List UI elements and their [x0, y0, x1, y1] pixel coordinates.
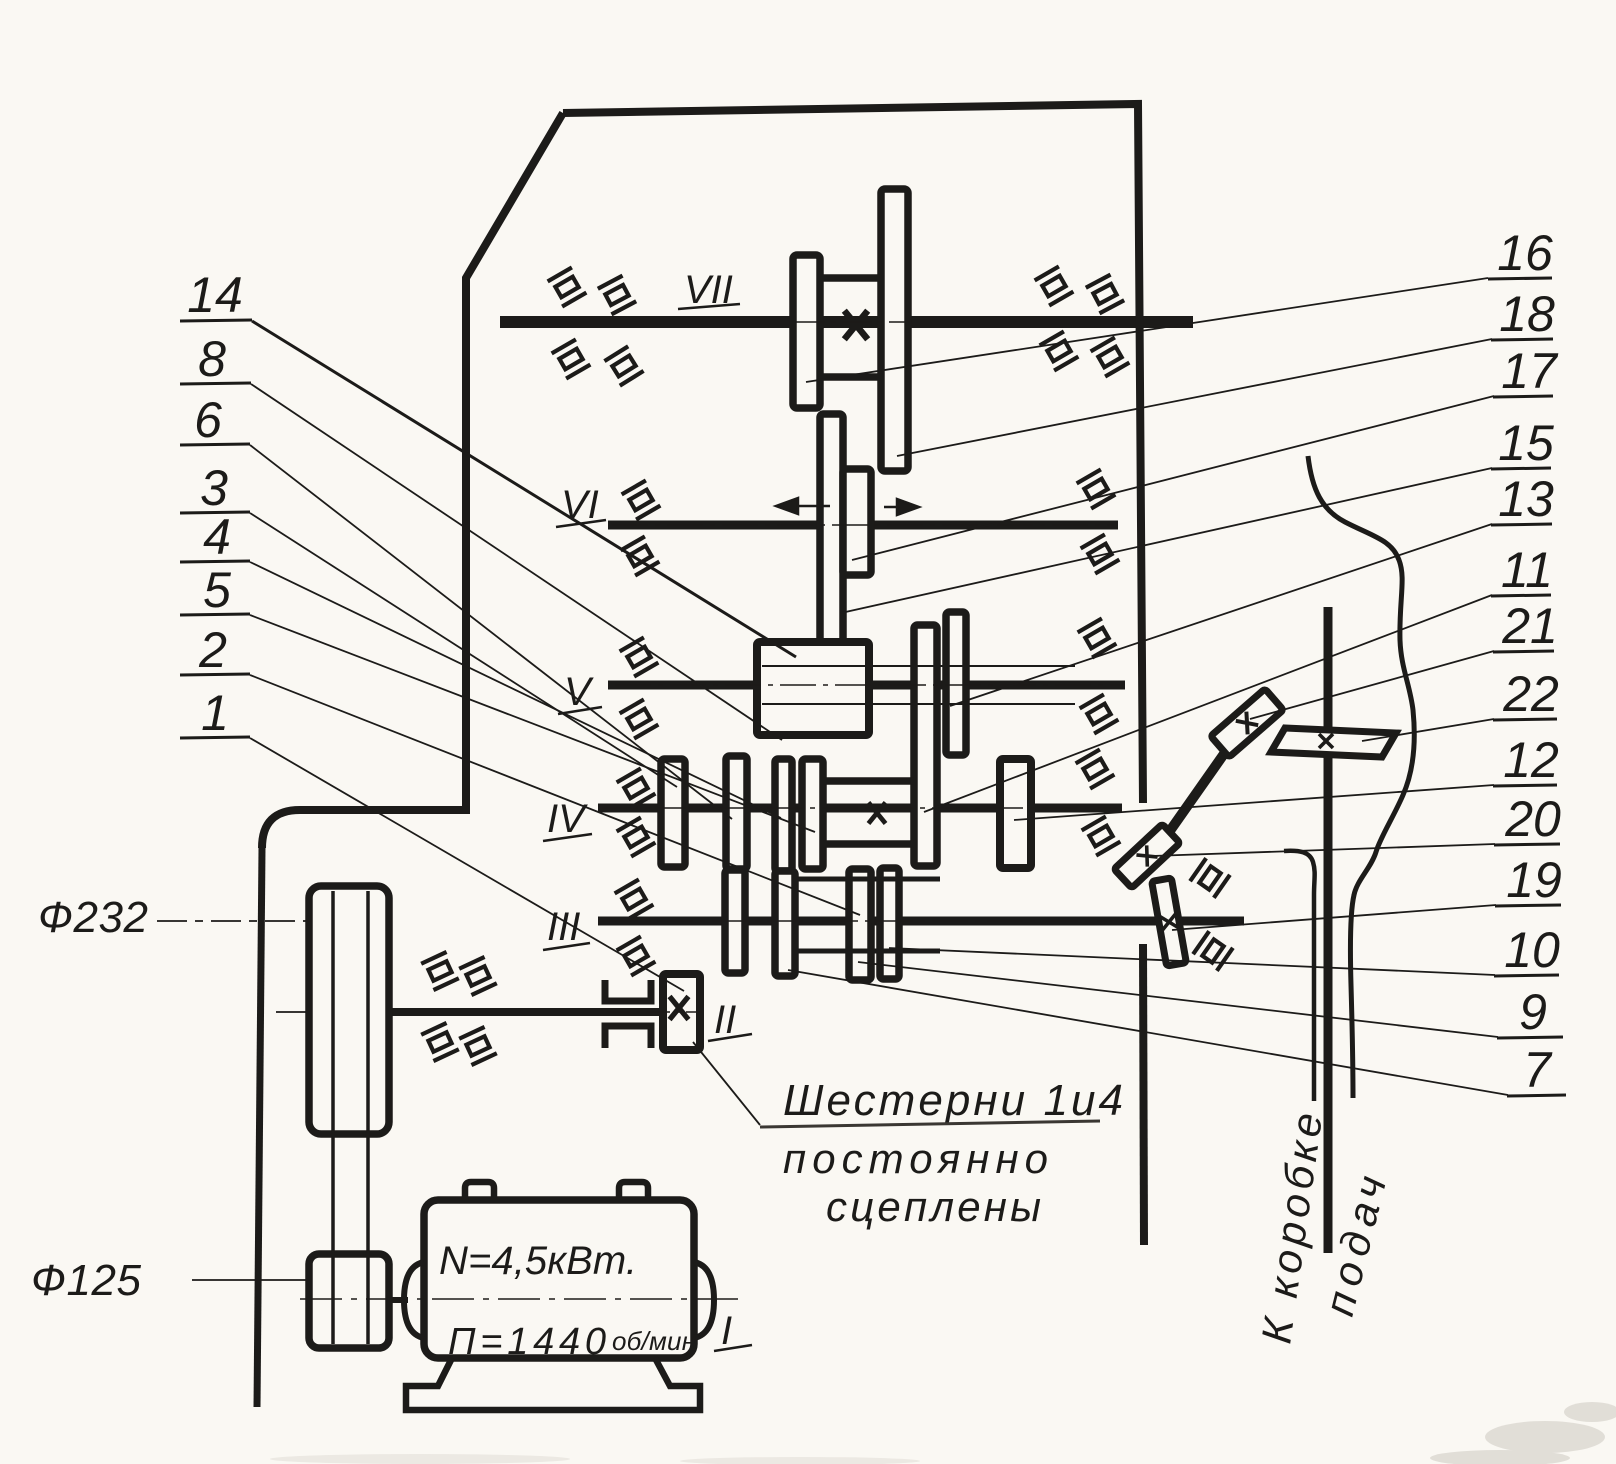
svg-text:13: 13 — [1498, 471, 1554, 527]
jaw clutch on shaft II lower part — [605, 1026, 651, 1048]
underline IV — [543, 834, 592, 841]
svg-text:16: 16 — [1497, 225, 1553, 281]
underline 2 — [180, 674, 250, 675]
shaft V — [608, 681, 1125, 690]
leader label 11 — [924, 595, 1492, 812]
centerline shaft II — [606, 1011, 702, 1013]
underline 5 — [180, 614, 250, 615]
underline 9 — [1497, 1037, 1563, 1038]
svg-text:постоянно: постоянно — [783, 1135, 1048, 1182]
housing top edge and right wall upper — [563, 104, 1143, 803]
sleeve lines shaft V right — [869, 665, 1075, 667]
LEADERS-LAYER — [157, 278, 1508, 1280]
svg-text:сцеплены: сцеплены — [826, 1183, 1041, 1230]
svg-text:N=4,5кВт.: N=4,5кВт. — [439, 1239, 637, 1283]
motor lug right — [619, 1182, 648, 1200]
feed box cover left line — [1284, 851, 1315, 1101]
leader D125 — [192, 1279, 309, 1281]
bearings shaft IV left — [617, 768, 656, 807]
leader label 14 — [252, 321, 796, 657]
inclined bevel shaft — [1160, 724, 1245, 845]
jaw clutch on shaft II left part — [605, 980, 651, 1048]
underline 7 — [1507, 1095, 1566, 1096]
gear 3 on shaft IV — [726, 756, 747, 869]
gear 12 on shaft IV — [1000, 759, 1031, 868]
leader label 4 — [250, 562, 781, 818]
belt left line — [331, 891, 335, 1344]
svg-text:I: I — [721, 1309, 732, 1353]
svg-text:20: 20 — [1504, 791, 1561, 847]
gear 10 on shaft III — [880, 868, 899, 979]
svg-text:21: 21 — [1501, 598, 1558, 654]
tall gear 11 on shafts IV-V — [914, 625, 937, 866]
flat bevel gear 22 on vertical shaft — [1271, 728, 1396, 757]
bearings shaft IV right — [1076, 749, 1115, 788]
centerline shaft VII — [795, 321, 910, 323]
bearings shaft VI right — [1077, 469, 1116, 508]
underline III — [543, 943, 590, 950]
note underline — [760, 1121, 1100, 1127]
centerline shaft V — [602, 322, 1240, 1012]
LABELS-LAYER — [187, 225, 1562, 1098]
leader label 16 — [806, 278, 1488, 382]
block V inner lines — [762, 666, 1075, 704]
HOUSING-LAYER — [257, 104, 1144, 1407]
svg-text:10: 10 — [1504, 922, 1560, 978]
underline 14 — [180, 320, 252, 321]
svg-text:5: 5 — [203, 562, 231, 618]
leader label 8 — [251, 384, 782, 740]
svg-text:V: V — [564, 670, 594, 714]
bearings shaft V left — [620, 637, 659, 676]
vertical feed shaft — [1324, 607, 1333, 1253]
leader from gear 1 to note text — [693, 1042, 760, 1125]
svg-text:1: 1 — [201, 685, 229, 741]
scan noise bottom right — [1430, 1402, 1616, 1464]
leader label 6 — [250, 445, 732, 819]
gear 1 on shaft II — [663, 974, 700, 1050]
sleeve on shaft VII — [820, 278, 881, 377]
underline 13 — [1491, 524, 1552, 525]
underline V — [558, 707, 602, 714]
leader label 1 — [250, 738, 684, 991]
svg-text:III: III — [547, 905, 580, 949]
underline 10 — [1494, 975, 1559, 976]
svg-text:12: 12 — [1503, 732, 1559, 788]
svg-text:4: 4 — [203, 509, 231, 565]
bearings shaft II — [421, 952, 459, 990]
bearings shaft V right — [1078, 618, 1117, 657]
svg-text:VI: VI — [561, 483, 599, 527]
lower bevel gear 19 on shaft III — [1152, 878, 1187, 966]
BEARINGS-LAYER — [421, 266, 1233, 1065]
underline 22 — [1493, 719, 1557, 720]
shaft IV — [598, 804, 1122, 813]
motor end bell left — [404, 1262, 424, 1338]
x mark sleeve IV — [868, 803, 885, 824]
GEARS-LAYER — [661, 189, 1031, 1050]
leader label 22 — [1362, 719, 1494, 741]
housing right wall lower — [1143, 944, 1144, 1245]
svg-text:14: 14 — [187, 267, 243, 323]
scan noise bottom edge — [270, 1454, 920, 1464]
gear 18 on shaft VII — [881, 189, 908, 471]
housing left lower wall — [257, 848, 262, 1407]
x mark sleeve VII — [844, 311, 867, 340]
gear 13 on shaft V — [946, 612, 966, 755]
gear on shaft IV right of middle — [802, 759, 823, 869]
centerline shaft IV — [602, 807, 1118, 809]
underline I — [714, 1345, 752, 1351]
svg-text:об/мин: об/мин — [612, 1326, 696, 1356]
shaft VII — [500, 316, 1193, 328]
SHAFTS-LAYER — [276, 322, 1328, 1300]
sleeve with x on shaft IV — [823, 781, 914, 844]
svg-text:6: 6 — [194, 392, 222, 448]
svg-text:Ф125: Ф125 — [31, 1256, 142, 1305]
leader label 9 — [858, 962, 1498, 1037]
underline 1 — [180, 737, 250, 738]
svg-text:3: 3 — [200, 460, 228, 516]
gear 4 on shaft III — [725, 870, 745, 973]
housing left slant and wall — [262, 113, 563, 848]
leader label 5 — [250, 615, 815, 832]
underline 19 — [1495, 905, 1561, 906]
underline 6 — [180, 444, 250, 445]
bearings shaft III left — [615, 879, 654, 918]
leader label 17 — [852, 396, 1494, 560]
svg-text:7: 7 — [1523, 1042, 1553, 1098]
vertical gear 15 on shaft VI — [820, 414, 843, 645]
sleeve on shaft III — [795, 879, 940, 951]
shaft II — [389, 1008, 662, 1016]
leader label 7 — [788, 970, 1508, 1095]
leader label 18 — [897, 339, 1492, 456]
svg-text:15: 15 — [1498, 415, 1554, 471]
centerline shaft VI — [612, 524, 1114, 526]
leader label 15 — [841, 468, 1492, 613]
bearings shaft III right — [1190, 858, 1230, 898]
svg-text:11: 11 — [1501, 542, 1553, 598]
underline 15 — [1491, 468, 1551, 469]
underline 16 — [1488, 278, 1552, 279]
leader label 2 — [250, 675, 860, 915]
bearings shaft VI left — [622, 480, 661, 519]
svg-text:2: 2 — [198, 622, 227, 678]
bearings shaft VII right — [1035, 266, 1074, 305]
motor end bell right — [694, 1262, 714, 1338]
underline II — [708, 1034, 752, 1041]
underline 17 — [1493, 396, 1553, 397]
centerline shaft III — [602, 920, 1240, 922]
gear 16 on shaft VII — [793, 255, 820, 408]
sliding arrows on shaft VI — [776, 498, 919, 515]
small pulley D125 — [309, 1254, 389, 1348]
lower bevel gear 20 — [1114, 824, 1180, 888]
motor body — [424, 1200, 694, 1358]
svg-text:Шестерни 1и4: Шестерни 1и4 — [783, 1076, 1123, 1125]
gear 5 on shaft III — [775, 871, 795, 976]
leader label 13 — [950, 524, 1492, 706]
upper bevel gear 21 — [1211, 689, 1284, 757]
sliding gear 17 on shaft VI — [843, 469, 871, 575]
leader label 3 — [250, 513, 677, 787]
underline 3 — [180, 512, 250, 513]
svg-text:II: II — [714, 998, 736, 1042]
shaft III — [598, 917, 1244, 926]
gear 6 on shaft IV — [661, 759, 685, 867]
leader label 12 — [1014, 785, 1494, 820]
gear on shaft IV middle — [775, 759, 792, 871]
underline 8 — [180, 383, 251, 384]
leader label 19 — [1172, 905, 1496, 930]
underline 18 — [1491, 339, 1553, 340]
svg-text:9: 9 — [1519, 984, 1547, 1040]
underline VI — [556, 520, 606, 527]
underline 11 — [1491, 595, 1551, 596]
shaft VI — [608, 521, 1118, 530]
underline 4 — [180, 561, 250, 562]
x mark gear 1 — [670, 996, 689, 1019]
feed box cover wavy contour — [1308, 456, 1414, 1098]
shaft II centerline stub — [276, 1011, 310, 1013]
leader label 10 — [889, 948, 1495, 975]
svg-text:22: 22 — [1502, 666, 1559, 722]
underline 20 — [1494, 844, 1560, 845]
leader D232 — [157, 920, 311, 922]
motor axis centerline — [300, 1298, 742, 1300]
belt right line — [366, 891, 370, 1344]
svg-text:8: 8 — [198, 331, 226, 387]
gear 9 on shaft III — [849, 869, 871, 980]
underline VII — [678, 304, 740, 309]
svg-text:18: 18 — [1499, 286, 1555, 342]
bearings shaft VII left — [548, 267, 587, 306]
underline 21 — [1493, 651, 1554, 652]
leader label 21 — [1250, 651, 1494, 719]
leader label 20 — [1152, 844, 1495, 856]
motor lug left — [465, 1182, 494, 1200]
svg-text:19: 19 — [1506, 852, 1562, 908]
gear block 14-8 on shaft V — [757, 642, 869, 735]
motor base — [406, 1358, 700, 1410]
svg-text:17: 17 — [1501, 343, 1559, 399]
underline 12 — [1493, 785, 1557, 786]
big pulley D232 — [309, 886, 389, 1134]
motor shaft stub — [387, 1297, 408, 1303]
svg-text:Ф232: Ф232 — [38, 893, 148, 942]
